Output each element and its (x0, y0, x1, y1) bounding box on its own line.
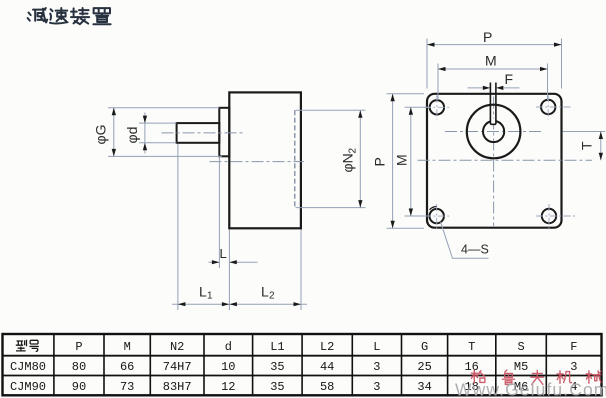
svg-text:73: 73 (120, 380, 134, 394)
gearbox body outline (229, 92, 301, 228)
dimension line M top (438, 68, 548, 70)
extension lines P top (427, 39, 562, 89)
svg-text:34: 34 (417, 380, 431, 394)
svg-text:4—S: 4—S (461, 243, 489, 257)
svg-text:12: 12 (221, 380, 235, 394)
extension lines phid (139, 123, 176, 143)
svg-text:S: S (517, 340, 524, 354)
table inner horizontal lines (3, 356, 602, 376)
extension lines phiG (108, 108, 222, 157)
svg-text:1: 1 (207, 291, 213, 302)
dimension line L1 L2 (172, 303, 307, 305)
svg-text:L2: L2 (320, 340, 334, 354)
extension line at body rear (300, 230, 302, 311)
hole bottom-right (542, 209, 556, 223)
svg-text:74H7: 74H7 (163, 360, 192, 374)
char 机 (557, 371, 572, 384)
char 鲁 (503, 370, 515, 384)
svg-text:G: G (421, 340, 428, 354)
char 格 (471, 370, 485, 383)
char 置 (93, 8, 110, 24)
header 型号 (drawn strokes) (16, 340, 39, 352)
table inner vertical lines (54, 334, 546, 395)
extension line at shaft end (177, 144, 179, 310)
svg-text:P: P (483, 29, 492, 45)
hole bottom-left center cross (424, 204, 451, 230)
svg-text:M5: M5 (514, 360, 528, 374)
svg-text:N2: N2 (170, 340, 184, 354)
title 减速装置 (drawn strokes) (28, 8, 111, 24)
svg-text:F: F (505, 71, 514, 87)
svg-text:Www.Gelufu.Com: Www.Gelufu.Com (455, 380, 606, 398)
extension lines P left (387, 94, 425, 229)
extension line T top (shaft center extended) (563, 131, 606, 133)
svg-text:M: M (124, 340, 131, 354)
svg-text:66: 66 (120, 360, 134, 374)
circle center line horizontal (445, 131, 542, 133)
dimension L line + arrows (209, 261, 258, 263)
svg-text:3: 3 (570, 360, 577, 374)
table outer border (3, 334, 602, 395)
svg-text:M: M (485, 53, 497, 69)
svg-text:2: 2 (269, 291, 275, 302)
svg-text:58: 58 (320, 380, 334, 394)
dimension line phid (144, 113, 146, 154)
hole top-right center cross (536, 96, 572, 120)
body center line (210, 161, 305, 163)
leader 4-S (441, 222, 489, 258)
svg-text:3: 3 (373, 360, 380, 374)
hole top-left (430, 100, 444, 114)
svg-text:φd: φd (124, 127, 140, 144)
extension line L left (flange front face) (218, 158, 220, 269)
extension line at body front (228, 230, 230, 311)
hole bottom-right center cross (536, 204, 575, 231)
keyway slot lines (490, 83, 496, 125)
char 速 (50, 8, 68, 24)
svg-text:16: 16 (464, 360, 478, 374)
body center line horizontal (418, 159, 593, 161)
hole top-right (541, 100, 555, 114)
pilot boss circle (467, 105, 521, 159)
char 减 (28, 8, 48, 22)
svg-text:φG: φG (93, 125, 109, 145)
extension lines M left (405, 107, 431, 216)
svg-text:90: 90 (72, 380, 86, 394)
dimension line P top (427, 44, 562, 46)
svg-text:80: 80 (72, 360, 86, 374)
output shaft (177, 123, 220, 143)
svg-text:F: F (570, 340, 577, 354)
extension lines phiN2 (296, 110, 366, 207)
svg-text:35: 35 (270, 380, 284, 394)
extension lines M top (438, 64, 548, 101)
bore circle (483, 121, 504, 142)
svg-text:L: L (220, 246, 227, 261)
svg-text:L1: L1 (270, 340, 284, 354)
flange square outline (427, 94, 562, 228)
svg-text:P: P (372, 157, 388, 166)
svg-text:L: L (373, 340, 380, 354)
vertical center line (493, 97, 495, 227)
dimension line T (600, 132, 602, 161)
dimension line M left (410, 107, 412, 216)
svg-text:83H7: 83H7 (163, 380, 192, 394)
svg-text:P: P (75, 340, 82, 354)
svg-text:T: T (468, 340, 475, 354)
svg-text:CJM90: CJM90 (10, 380, 46, 394)
svg-text:T: T (579, 141, 595, 150)
dimension F line + arrows (468, 87, 520, 89)
svg-text:10: 10 (221, 360, 235, 374)
keyway slot mask (491, 119, 496, 125)
svg-text:25: 25 (417, 360, 431, 374)
svg-text:φN: φN (340, 153, 356, 172)
label phiN2 (340, 148, 359, 173)
char 装 (71, 8, 89, 24)
table text (10, 340, 578, 394)
dimension line phiG (113, 108, 115, 157)
dimension line phiN2 (359, 110, 361, 207)
dimension line P left (392, 94, 394, 229)
hidden bore line N2 (294, 110, 296, 207)
char 械 (586, 371, 601, 383)
hole bottom-left thread arc (430, 207, 437, 210)
svg-text:M: M (394, 154, 410, 166)
hole top-left center cross (424, 96, 451, 120)
mounting flange step (219, 108, 229, 157)
svg-text:CJM80: CJM80 (10, 360, 46, 374)
svg-text:35: 35 (270, 360, 284, 374)
svg-text:L: L (261, 284, 269, 300)
svg-text:2: 2 (348, 148, 359, 154)
svg-text:d: d (225, 340, 232, 354)
red watermark 格鲁夫机械 (drawn strokes) (471, 370, 601, 384)
svg-text:44: 44 (320, 360, 334, 374)
hole bottom-left (430, 209, 444, 223)
char 夫 (531, 370, 544, 384)
shaft center line (162, 132, 245, 134)
svg-text:L: L (199, 284, 207, 300)
svg-text:3: 3 (373, 380, 380, 394)
